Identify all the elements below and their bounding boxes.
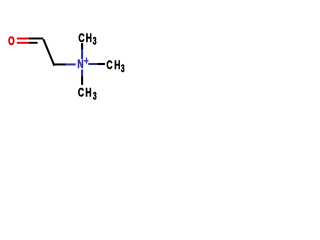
methyl C3 label (top CH3) [78, 33, 96, 47]
double bond O1=C1 bottom line (O half, red) [17, 42, 29, 44]
bond N1-C3 up (C half, black) [81, 43, 83, 50]
svg-text:C: C [78, 88, 85, 101]
double bond O1=C1 top line (C half, black) [29, 38, 44, 40]
double bond O1=C1 top line (O half, red) [17, 38, 29, 40]
bond N1-C5 right (C half, black) [97, 63, 105, 65]
double bond O1=C1 bottom line (C half, black) [29, 42, 38, 44]
svg-text:H: H [85, 88, 91, 101]
svg-text:3: 3 [93, 90, 97, 102]
svg-text:H: H [86, 33, 92, 46]
bond N1-C4 down (N half, blue) [81, 70, 83, 78]
bond N1-C5 right (N half, blue) [88, 63, 97, 65]
charge plus on N1 [84, 58, 89, 64]
svg-text:3: 3 [121, 62, 125, 74]
svg-text:C: C [78, 33, 85, 46]
bond C1-C2 diagonal [43, 39, 54, 66]
methyl C4 label (bottom CH3) [78, 88, 97, 102]
bond C2-N1 (N half, blue) [66, 63, 75, 65]
bond C2-N1 (C half, black) [54, 63, 66, 65]
svg-text:O: O [8, 36, 14, 49]
methyl C5 label (right CH3) [106, 60, 124, 75]
bond N1-C4 down (C half, black) [81, 77, 83, 85]
svg-text:3: 3 [93, 35, 97, 47]
svg-text:C: C [106, 60, 113, 73]
svg-text:H: H [114, 60, 120, 73]
bond N1-C3 up (N half, blue) [81, 50, 83, 59]
